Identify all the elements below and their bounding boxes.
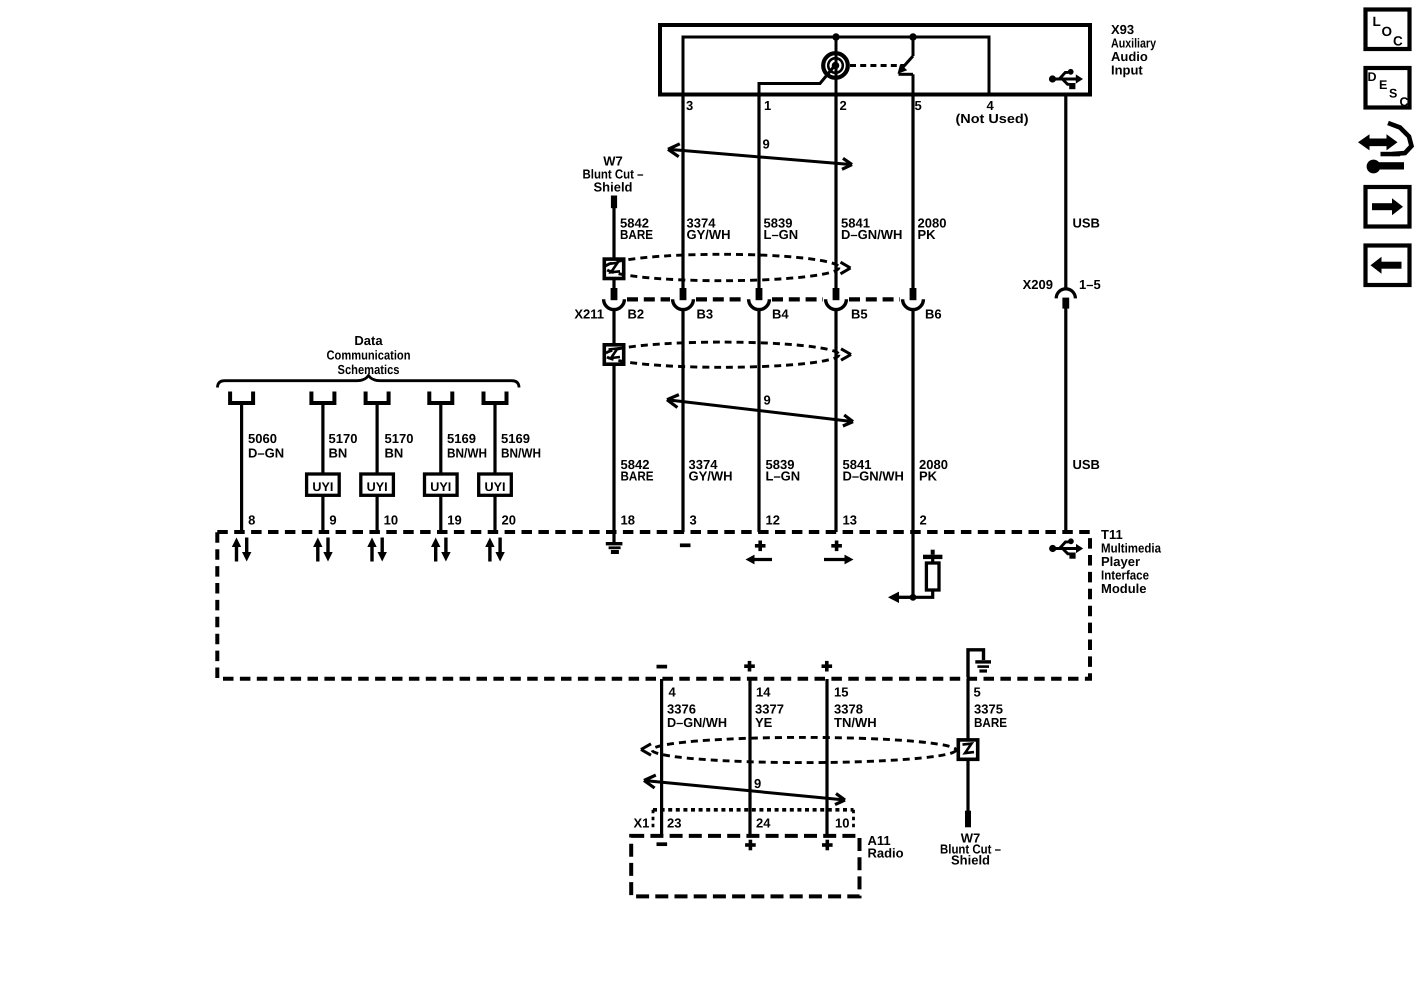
pin 12 label at module top	[766, 513, 780, 528]
pin 13 internal plus and arrow	[824, 541, 854, 565]
label circuit 3374 GY/WH middle	[689, 457, 733, 484]
pin 1 label	[764, 98, 771, 113]
wire serial data stub 5170b	[376, 405, 379, 532]
svg-text:BARE: BARE	[974, 715, 1007, 730]
svg-text:D–GN/WH: D–GN/WH	[667, 715, 727, 730]
svg-text:13: 13	[843, 513, 857, 528]
connector X209 on USB wire	[1056, 289, 1075, 309]
svg-text:YE: YE	[755, 715, 773, 730]
pin 4 label	[956, 98, 1029, 126]
bidirectional serial data arrows at 377.1	[367, 538, 387, 562]
svg-text:1–5: 1–5	[1079, 277, 1101, 292]
pin 24 internal plus	[745, 840, 756, 851]
pin 2 label	[840, 98, 847, 113]
label X1	[634, 816, 650, 831]
label circuit 3376 D-GN/WH	[667, 702, 727, 731]
pin 20 label at module top	[502, 513, 516, 528]
svg-text:O: O	[1382, 24, 1393, 39]
bidirectional serial data arrows at 495.0	[485, 538, 505, 562]
connector X211 terminal B3	[673, 288, 694, 310]
svg-text:Data: Data	[354, 333, 383, 348]
svg-text:BARE: BARE	[620, 227, 653, 242]
wire 5841 D-GN/WH middle	[834, 309, 837, 532]
pin 23 internal minus	[657, 842, 668, 846]
legend icon harness routing	[1358, 123, 1412, 173]
audio jack symbol	[823, 53, 848, 78]
svg-text:D–GN: D–GN	[248, 446, 284, 461]
svg-text:USB: USB	[1073, 216, 1100, 231]
label W7 Blunt Cut Shield bottom	[940, 831, 1001, 868]
label T11 Multimedia Player Interface Module	[1101, 527, 1162, 596]
label circuit 5169 BN/WH a	[447, 431, 487, 461]
pin 15 internal plus	[822, 661, 833, 672]
pin 3 label at module top	[690, 513, 697, 528]
label circuit 5839 L-GN middle	[766, 457, 801, 484]
svg-text:BN/WH: BN/WH	[447, 446, 487, 461]
wire 5842 BARE upper	[612, 207, 615, 259]
pin 19 label at module top	[447, 513, 461, 528]
svg-text:B2: B2	[628, 307, 645, 322]
connector X93 Auxiliary Audio Input housing	[660, 25, 1090, 95]
ground symbol pin 5 internal	[968, 650, 991, 677]
label circuit 3375 BARE	[974, 702, 1007, 731]
connector serial data stub 5060	[230, 392, 253, 404]
label circuit 5170 BN b	[385, 431, 414, 461]
svg-text:18: 18	[621, 513, 635, 528]
svg-text:9: 9	[764, 393, 771, 408]
legend icon DESC	[1366, 68, 1410, 109]
wire 3376 D-GN/WH	[660, 679, 663, 836]
label circuit 5841 D-GN/WH upper	[841, 216, 902, 243]
wire 5839 L-GN upper	[757, 96, 760, 289]
label circuit 5842 BARE upper	[620, 216, 653, 243]
pin 4 internal minus	[657, 665, 668, 669]
wire 3378 TN/WH	[825, 679, 828, 836]
label X209	[1023, 277, 1053, 292]
svg-text:E: E	[1379, 78, 1387, 92]
svg-text:24: 24	[756, 816, 771, 831]
wire 3377 YE	[748, 679, 751, 836]
label B2	[628, 307, 645, 322]
wire 2080 PK upper	[911, 96, 914, 289]
node junction pin2 on bus	[832, 33, 839, 40]
svg-text:1: 1	[764, 98, 771, 113]
legend icon LOC	[1366, 10, 1410, 50]
svg-text:B6: B6	[925, 307, 942, 322]
wire 5839 L-GN middle	[757, 309, 760, 532]
svg-text:20: 20	[502, 513, 516, 528]
svg-text:(Not Used): (Not Used)	[956, 111, 1029, 126]
svg-text:TN/WH: TN/WH	[834, 715, 877, 730]
bidirectional serial data arrows at 241.6	[232, 538, 252, 562]
resistor pull-up internal	[913, 550, 942, 598]
wire serial data stub 5169b	[493, 405, 496, 532]
pin 4 label bottom	[669, 685, 677, 700]
svg-text:B5: B5	[851, 307, 868, 322]
svg-text:Module: Module	[1101, 581, 1147, 596]
wire 2080 PK middle	[911, 309, 914, 532]
connector serial data stub 5170b	[366, 392, 389, 404]
label circuit 3374 GY/WH upper	[687, 216, 731, 243]
svg-text:S: S	[1389, 87, 1397, 101]
pin 2 internal junction	[910, 594, 917, 601]
svg-text:15: 15	[834, 685, 848, 700]
svg-text:19: 19	[447, 513, 461, 528]
note 9 twisted leads arrow bottom	[644, 775, 845, 805]
shield ellipse 3	[641, 737, 956, 762]
pin 10 internal plus	[822, 840, 833, 851]
connector serial data stub 5169b	[484, 392, 507, 404]
module A11 Radio dashed box	[631, 836, 859, 897]
svg-text:BN: BN	[329, 446, 348, 461]
label circuit 5169 BN/WH b	[501, 431, 541, 461]
pin 2 internal wire	[911, 533, 914, 597]
label circuit 2080 PK upper	[918, 216, 947, 243]
svg-text:Input: Input	[1111, 63, 1143, 78]
label Data Communication Schematics	[327, 333, 411, 377]
svg-text:B3: B3	[697, 307, 714, 322]
label circuit 3378 TN/WH	[834, 702, 877, 731]
svg-text:Shield: Shield	[951, 853, 990, 868]
pin 10 label at module top	[384, 513, 398, 528]
svg-text:L: L	[1373, 14, 1381, 29]
svg-text:D–GN/WH: D–GN/WH	[841, 227, 902, 242]
label USB middle	[1073, 457, 1100, 472]
wire 3374 GY/WH middle	[681, 309, 684, 532]
svg-text:Shield: Shield	[593, 180, 632, 195]
pin 15 label bottom	[834, 685, 848, 700]
connector X211 terminal B4	[749, 288, 770, 310]
svg-text:X1: X1	[634, 816, 650, 831]
legend icon arrow right	[1366, 187, 1410, 227]
svg-text:L–GN: L–GN	[766, 469, 801, 484]
svg-text:Communication: Communication	[327, 348, 411, 363]
label X93 Auxiliary Audio Input	[1111, 22, 1157, 78]
pin 13 label at module top	[843, 513, 857, 528]
label circuit 5060 D-GN	[248, 431, 284, 461]
pin 10 label	[835, 816, 849, 831]
label A11 Radio	[868, 833, 904, 861]
pin 2 internal arrow left	[888, 592, 913, 603]
connector X1 dotted line	[653, 810, 854, 828]
inline connector UYI at 440.8	[425, 474, 458, 495]
legend icon arrow left	[1366, 246, 1410, 286]
connector X211 terminal B5	[826, 288, 847, 310]
svg-text:4: 4	[669, 685, 677, 700]
splice S2 on shield	[604, 345, 623, 364]
wire pin1 plug contact	[759, 67, 834, 97]
pin 14 label bottom	[756, 685, 771, 700]
label circuit 5842 BARE middle	[621, 457, 654, 484]
wire W7 shield blunt cut cap	[611, 196, 617, 209]
wire USB upper	[1064, 96, 1067, 289]
svg-text:5: 5	[974, 685, 981, 700]
node junction pin5 on bus	[909, 33, 916, 40]
wire 5842 BARE between splice and X211	[612, 279, 615, 289]
svg-text:5170: 5170	[329, 431, 358, 446]
svg-text:X209: X209	[1023, 277, 1053, 292]
pin 24 label	[756, 816, 771, 831]
connector X211 dashed line	[627, 297, 900, 301]
label W7 Blunt Cut Shield	[583, 154, 644, 195]
svg-text:5: 5	[915, 98, 922, 113]
inline connector UYI at 322.9	[307, 474, 340, 495]
bidirectional serial data arrows at 440.8	[431, 538, 451, 562]
label circuit 3377 YE	[755, 702, 784, 731]
connector serial data stub 5170a	[311, 392, 334, 404]
pin 9 label at module top	[329, 513, 336, 528]
svg-text:C: C	[1400, 95, 1409, 109]
svg-text:10: 10	[835, 816, 849, 831]
label USB upper	[1073, 216, 1100, 231]
svg-text:X211: X211	[574, 307, 604, 322]
connector serial data stub 5169a	[429, 392, 452, 404]
pin 3 label	[686, 98, 693, 113]
svg-text:BARE: BARE	[621, 469, 654, 484]
label B5	[851, 307, 868, 322]
svg-text:8: 8	[248, 513, 255, 528]
pin 3 internal minus	[680, 543, 691, 547]
module T11 dashed box	[217, 532, 1090, 679]
svg-text:9: 9	[754, 776, 761, 791]
label B6	[925, 307, 942, 322]
connector X211 terminal B2	[604, 288, 625, 310]
switch arm pin5	[898, 37, 914, 96]
svg-text:UYI: UYI	[367, 480, 388, 494]
brace data communication	[218, 376, 520, 388]
wire serial data stub 5170a	[321, 405, 324, 532]
svg-text:10: 10	[384, 513, 398, 528]
USB icon module internal	[1049, 538, 1083, 558]
svg-text:UYI: UYI	[312, 480, 333, 494]
svg-text:L–GN: L–GN	[764, 227, 799, 242]
svg-text:GY/WH: GY/WH	[687, 227, 731, 242]
connector X211 terminal B6	[903, 288, 924, 310]
svg-text:5169: 5169	[447, 431, 476, 446]
wire serial data stub 5060	[240, 405, 243, 532]
pin 14 internal plus	[744, 661, 755, 672]
svg-text:UYI: UYI	[485, 480, 506, 494]
pin 18 label at module top	[621, 513, 635, 528]
pin 5 label	[915, 98, 922, 113]
pin 2 label at module top	[920, 513, 927, 528]
pin 8 label at module top	[248, 513, 255, 528]
label B4	[772, 307, 789, 322]
svg-text:GY/WH: GY/WH	[689, 469, 733, 484]
shield ellipse 1	[605, 254, 851, 280]
bidirectional serial data arrows at 322.9	[313, 538, 333, 562]
USB receptacle icon X93	[1049, 69, 1083, 89]
svg-text:BN/WH: BN/WH	[501, 446, 541, 461]
svg-text:23: 23	[667, 816, 681, 831]
shield ellipse 2	[605, 342, 851, 367]
label 1-5	[1079, 277, 1101, 292]
mechanical link dashed	[850, 64, 905, 67]
pin 12 internal plus and arrow	[746, 541, 773, 565]
svg-text:USB: USB	[1073, 457, 1100, 472]
svg-text:9: 9	[329, 513, 336, 528]
wire pin2 through jack	[835, 37, 838, 96]
wire 5841 D-GN/WH upper	[834, 96, 837, 289]
svg-text:5169: 5169	[501, 431, 530, 446]
label X211	[574, 307, 604, 322]
svg-text:2: 2	[840, 98, 847, 113]
svg-text:12: 12	[766, 513, 780, 528]
inline connector UYI at 495.0	[479, 474, 512, 495]
wire internal bus pin3 to pin4	[683, 37, 989, 96]
splice S3 on bottom shield	[958, 740, 977, 759]
pin 5 label bottom	[974, 685, 981, 700]
svg-text:PK: PK	[918, 227, 937, 242]
svg-text:PK: PK	[919, 469, 938, 484]
svg-text:2: 2	[920, 513, 927, 528]
svg-text:B4: B4	[772, 307, 789, 322]
note 9 twisted leads arrow upper	[668, 137, 852, 170]
wire 3374 GY/WH upper	[681, 96, 684, 289]
note 9 twisted leads arrow middle	[667, 393, 853, 427]
svg-text:Radio: Radio	[868, 846, 904, 861]
label circuit 5170 BN a	[329, 431, 358, 461]
svg-text:14: 14	[756, 685, 771, 700]
wire 3375 BARE shield bottom	[966, 679, 969, 811]
label circuit 2080 PK middle	[919, 457, 948, 484]
label B3	[697, 307, 714, 322]
svg-text:D–GN/WH: D–GN/WH	[843, 469, 904, 484]
inline connector UYI at 377.1	[361, 474, 394, 495]
wire serial data stub 5169a	[439, 405, 442, 532]
wire USB middle	[1064, 308, 1067, 532]
wire 5842 BARE middle	[612, 309, 615, 532]
svg-text:5060: 5060	[248, 431, 277, 446]
svg-text:C: C	[1393, 34, 1403, 49]
svg-text:BN: BN	[385, 446, 404, 461]
label circuit 5839 L-GN upper	[764, 216, 799, 243]
svg-text:3: 3	[686, 98, 693, 113]
wire W7 bottom blunt cut cap	[965, 811, 971, 828]
label circuit 5841 D-GN/WH middle	[843, 457, 904, 484]
ground symbol pin 18 internal	[606, 533, 623, 554]
pin 23 label	[667, 816, 681, 831]
svg-text:3: 3	[690, 513, 697, 528]
svg-text:5170: 5170	[385, 431, 414, 446]
svg-text:D: D	[1368, 70, 1377, 84]
splice S1 on shield	[604, 259, 623, 278]
svg-text:UYI: UYI	[430, 480, 451, 494]
svg-text:9: 9	[763, 137, 770, 152]
